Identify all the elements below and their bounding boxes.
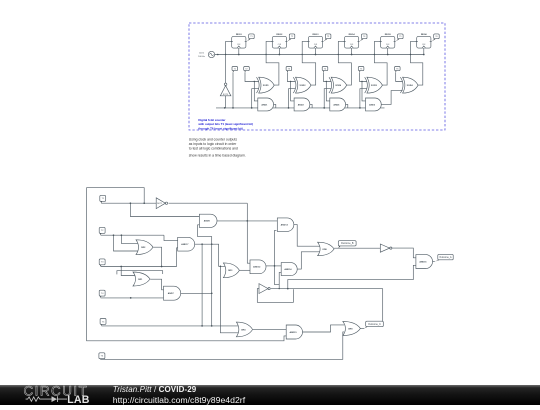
svg-text:T5: T5 [399, 36, 401, 38]
wire REG4 clock stub [351, 48, 353, 54]
and-gate AND2 [294, 98, 310, 111]
or-gate OR6 [318, 242, 335, 256]
junction T5 branch [361, 81, 362, 82]
wire AND9 lower input hook [198, 225, 212, 326]
svg-text:T4: T4 [324, 68, 326, 70]
svg-text:LAB: LAB [67, 394, 90, 405]
svg-text:NOT1: NOT1 [157, 203, 162, 205]
flag T6 tap [395, 67, 401, 73]
flip-flop REG2 [271, 36, 287, 48]
junction REG1 clk [238, 54, 240, 56]
wire T3 to OR1 upper [121, 267, 136, 276]
svg-text:T2: T2 [291, 36, 293, 38]
flip-flop REG5 [380, 36, 396, 48]
junction REG4 clk [351, 54, 353, 56]
svg-text:AND6: AND6 [333, 103, 340, 106]
junction AND13 input tap [274, 265, 276, 267]
svg-text:Outcome_A: Outcome_A [439, 256, 452, 259]
flag input T4 [99, 290, 105, 298]
wire NOT11 vertical / REG1 D input [226, 41, 232, 108]
wire T5 horizontal [102, 325, 239, 327]
svg-text:Outcome_C: Outcome_C [368, 323, 381, 326]
svg-text:T3: T3 [288, 68, 290, 70]
wire AND13 lower input [275, 230, 280, 284]
svg-text:AND17: AND17 [181, 243, 189, 246]
wire XOR1 output to REG2 D [266, 41, 279, 85]
flag input T2 [99, 227, 105, 235]
svg-text:REG5: REG5 [385, 34, 392, 36]
svg-text:to test all logic combinations: to test all logic combinations and [189, 147, 238, 151]
inverter NOT11 (clocked toggle for bit 1) [220, 83, 231, 96]
CircuitLab logo [22, 385, 132, 410]
wire T5 to AND3 upper input [362, 82, 366, 101]
flag Outcome_A [435, 254, 453, 261]
junction T3 branch [290, 81, 291, 82]
junction T3 b [161, 266, 163, 268]
junction T2 a [113, 234, 115, 236]
junction T2 branch [254, 81, 255, 82]
svg-text:AND1: AND1 [261, 103, 268, 106]
and-gate AND17 [178, 237, 195, 251]
wire T1 bottom bus [216, 107, 385, 109]
svg-text:OR3: OR3 [228, 270, 233, 272]
or-gate OR1 [133, 272, 150, 286]
svg-text:AND13: AND13 [281, 224, 289, 227]
svg-text:REG6: REG6 [421, 34, 428, 36]
svg-text:OR4: OR4 [241, 328, 246, 331]
svg-text:100 Hz: 100 Hz [198, 56, 205, 58]
wire T3 tap to XOR input [287, 72, 295, 81]
wire T3 to AND2 upper input [291, 82, 295, 101]
junction T4 a [130, 297, 132, 299]
or-gate OR8 [343, 321, 361, 335]
wire AND7 out [181, 292, 212, 294]
and-gate AND13 [277, 218, 294, 232]
svg-text:AND3: AND3 [369, 103, 376, 106]
svg-text:XOR1: XOR1 [263, 85, 270, 87]
svg-text:T6: T6 [396, 68, 398, 70]
wire AND12 out to AND14 [266, 265, 281, 267]
and-gate AND7 [164, 286, 181, 300]
svg-text:T4: T4 [363, 36, 365, 38]
svg-text:OR8: OR8 [348, 328, 353, 330]
svg-text:T3: T3 [327, 36, 329, 38]
not-gate NOT1 [156, 198, 167, 209]
wire T6 tap to XOR input [396, 72, 403, 81]
wire NOT1 out [169, 202, 248, 204]
svg-text:OR6: OR6 [322, 249, 327, 251]
wire OR1 out to AND7 [150, 279, 163, 290]
wire T2 to OR2 upper [121, 235, 137, 243]
junction AND9 hook c [211, 325, 213, 327]
wire XOR4 output to REG6 D [411, 41, 423, 85]
flip-flop REG1 [231, 36, 247, 48]
junction T1 a [130, 202, 132, 204]
svg-text:REG4: REG4 [349, 33, 356, 36]
junction D wire clock crossing 5 [410, 54, 411, 55]
wire T4 horizontal [101, 297, 164, 299]
wire T3 to AND17 lower [177, 248, 178, 267]
wire T4 to AND6 upper input [326, 82, 330, 101]
xor-gate XOR2 [293, 77, 311, 93]
svg-text:AND12: AND12 [253, 266, 261, 269]
flag T4 output of REG4 [360, 34, 367, 42]
wire XOR3 output to REG5 D [374, 41, 387, 85]
junction AND12 net [287, 288, 289, 290]
wire OR4 out to AND15 [253, 328, 286, 330]
or-gate OR4 [236, 322, 252, 337]
junction D wire clock crossing 1 [265, 54, 266, 55]
svg-text:as inputs to logic circuit in: as inputs to logic circuit in order [189, 142, 237, 146]
svg-text:show results in a time based d: show results in a time based diagram. [189, 154, 246, 158]
wire T2 horizontal [101, 234, 164, 236]
flag T2 tap [244, 67, 250, 73]
and-gate AND15 [286, 325, 302, 339]
svg-text:AND14: AND14 [284, 268, 292, 271]
junction AND17 out a [201, 243, 203, 245]
wire T1 to AND9 [130, 203, 199, 216]
junction T4 branch [326, 81, 327, 82]
flag T3 output of REG3 [324, 34, 331, 42]
and-gate AND12 [250, 260, 266, 274]
or-gate OR2 [136, 240, 153, 255]
svg-text:AND2: AND2 [298, 103, 305, 106]
junction T2 b [121, 234, 123, 236]
wire AND16 out [433, 261, 435, 263]
svg-text:AND16: AND16 [419, 260, 427, 263]
junction clock-out [217, 54, 219, 56]
wire bus to XOR1 lower input [252, 89, 259, 108]
wire XOR2 output to REG3 D [302, 41, 316, 85]
not-gate NOT5 [380, 244, 392, 252]
svg-text:REG2: REG2 [276, 34, 283, 36]
wire AND17 net down 2 [220, 266, 238, 333]
and-gate AND14 [281, 263, 297, 276]
and-gate AND16 [416, 255, 433, 269]
wire bus to XOR3 lower input [360, 89, 367, 108]
dashed selection box around counter [189, 23, 445, 130]
flag T5 output of REG5 [396, 34, 403, 42]
junction D wire clock crossing 4 [374, 54, 375, 55]
wire XOR6 output to REG4 D [338, 41, 351, 85]
junction REG5 clk [387, 54, 389, 56]
wire T3 horizontal [101, 266, 177, 268]
wire T2 to OR2 lower [114, 235, 138, 251]
xor-gate XOR4 [400, 77, 418, 93]
wire T4 tap to XOR input [324, 72, 332, 81]
svg-text:AND9: AND9 [204, 220, 211, 223]
wire T2 to AND17 upper [164, 235, 178, 240]
svg-text:T1: T1 [250, 36, 252, 38]
junction bus tap 1 [251, 107, 253, 109]
and-gate AND1 [258, 98, 274, 111]
svg-text:T6: T6 [435, 36, 437, 38]
wire clock bus [215, 54, 424, 56]
svg-text:T5: T5 [360, 68, 362, 70]
not-gate NOT3 [259, 284, 270, 294]
flag T2 output of REG2 [287, 34, 294, 42]
flag Outcome_B [338, 241, 356, 249]
wire NOT3 input loop [257, 289, 293, 303]
svg-text:XOR6: XOR6 [335, 85, 342, 87]
wire T2 tap to XOR input [245, 72, 259, 81]
svg-text:OR2: OR2 [141, 247, 146, 249]
wire AND9 out to AND13 [217, 220, 277, 222]
svg-text:T2: T2 [245, 68, 247, 70]
junction bus tap 3 [323, 107, 325, 109]
wire NOT3 net to AND16 [288, 265, 416, 288]
and-gate AND6 [330, 98, 346, 111]
flag input T1 [100, 195, 106, 203]
wire REG3 clock stub [315, 48, 317, 54]
wire bus to XOR2 lower input [289, 89, 296, 108]
svg-text:XOR4: XOR4 [407, 84, 414, 87]
wire NOT3 net to Outcome_C [382, 289, 384, 322]
junction AND14 input [279, 288, 280, 289]
junction AND9 hook a [211, 243, 213, 245]
wire OR6 out to NOT5 [334, 247, 380, 249]
svg-text:NOT11: NOT11 [223, 94, 228, 96]
junction T3 a [120, 266, 122, 268]
wire AND3 carry to XOR4 [381, 91, 402, 105]
wire NOT3 out [271, 288, 383, 290]
junction REG3 clk [315, 54, 317, 56]
svg-text:XOR3: XOR3 [371, 85, 378, 87]
flip-flop REG6 [416, 36, 432, 48]
wire REG2 clock stub [278, 48, 280, 54]
junction T1 b [143, 202, 145, 204]
wire OR8 out [360, 327, 364, 329]
wire AND14 out to OR6 [297, 252, 319, 269]
flag T4 tap [322, 67, 328, 73]
junction AND17 down [201, 325, 203, 327]
svg-text:Outcome_B: Outcome_B [341, 242, 354, 245]
junction AND9 hook b [211, 292, 213, 294]
svg-text:through T6 (most significant b: through T6 (most significant bit) [198, 126, 242, 130]
junction NOT11 on T1 bus [224, 107, 226, 109]
junction D wire clock crossing 2 [302, 54, 303, 55]
flag input T5 [100, 319, 106, 326]
note test description (black) [189, 138, 246, 158]
wire T6 horizontal to OR8 [100, 332, 344, 359]
wire AND17 net down 1 [201, 244, 203, 326]
flag input T3 [99, 259, 105, 267]
flag T1 output of REG1 [247, 34, 254, 42]
svg-text:AND7: AND7 [168, 292, 175, 295]
wire AND13 out to OR6 [294, 225, 320, 247]
wire AND14 lower input [279, 272, 281, 288]
wire REG1 clock stub [238, 48, 240, 54]
flag Outcome_C [364, 321, 383, 328]
junction AND17 out b [220, 265, 222, 267]
flag T3 tap [286, 67, 292, 73]
xor-gate XOR1 [257, 77, 275, 93]
xor-gate XOR3 [365, 77, 383, 93]
wire AND17 out to OR3 [195, 244, 226, 266]
note digital counter description (blue) [197, 118, 253, 131]
svg-text:OR1: OR1 [138, 279, 143, 281]
wire T1 to NOT1 [101, 202, 156, 204]
flag T6 output of REG6 [432, 34, 439, 42]
wire bridge over OR1 [117, 271, 163, 275]
svg-text:T1: T1 [234, 68, 236, 70]
wire REG6 clock stub [423, 48, 425, 54]
junction NOT11 clock crossing [225, 54, 226, 55]
wire NOT1 net to AND12 [247, 203, 250, 263]
junction bus tap 4 [359, 107, 361, 109]
junction REG6 clk [423, 54, 425, 56]
wire REG5 clock stub [387, 48, 389, 54]
wire NOT5 out to AND16 [392, 248, 416, 258]
xor-gate XOR6 [329, 77, 347, 93]
svg-text:XOR2: XOR2 [299, 85, 306, 87]
junction NOT1 net / AND9 out [246, 220, 248, 222]
and-gate AND3 [366, 98, 382, 111]
junction REG2 clk [279, 54, 281, 56]
wire T1 left rail [87, 188, 287, 341]
flip-flop REG3 [308, 36, 324, 48]
junction D wire clock crossing 3 [338, 54, 339, 55]
wire T1 tap to bus [232, 72, 234, 108]
wire OR3 out to AND12 [240, 269, 250, 271]
flag T1 tap [232, 67, 238, 73]
or-gate OR3 [223, 263, 239, 278]
wire T2 to AND1 upper input [254, 82, 257, 101]
flag T5 tap [358, 67, 364, 73]
svg-text:REG1: REG1 [236, 34, 243, 36]
junction bus tap 2 [288, 107, 290, 109]
wire AND6 carry out [346, 104, 348, 108]
and-gate AND9 [199, 214, 217, 227]
wire OR2 out [153, 247, 161, 266]
wire T5 tap to XOR input [360, 72, 367, 81]
flip-flop REG4 [344, 36, 360, 48]
svg-text:REG3: REG3 [313, 34, 320, 36]
wire bus to XOR6 lower input [324, 89, 331, 108]
wire AND2 carry out [310, 104, 312, 108]
wire AND15 out to OR8 [303, 325, 345, 332]
clock source CLK1 100 Hz [198, 51, 214, 58]
svg-text:AND15: AND15 [289, 331, 297, 334]
flag input T6 [99, 353, 105, 360]
wire AND1 carry out [274, 104, 276, 108]
svg-text:CLK1: CLK1 [199, 53, 205, 55]
junction T1 bus [232, 107, 234, 109]
footer attribution text [113, 385, 245, 405]
